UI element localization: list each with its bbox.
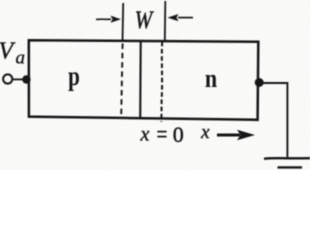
wire from right contact to ground — [260, 83, 288, 157]
depletion edge line (right, xn) — [160, 42, 163, 122]
x axis arrow — [217, 134, 240, 137]
svg-text:W: W — [135, 6, 155, 35]
svg-text:n: n — [205, 64, 218, 93]
W dimension right tick — [164, 1, 167, 42]
svg-text:p: p — [68, 61, 80, 91]
ground bar bottom — [278, 166, 303, 168]
contact dot left — [22, 75, 30, 83]
contact dot right — [255, 78, 264, 87]
svg-text:=: = — [157, 120, 168, 148]
ground bar top — [264, 157, 310, 160]
scan paper texture — [0, 0, 310, 170]
svg-text:a: a — [16, 47, 26, 68]
dimension arrow pointing right — [96, 18, 111, 20]
depletion edge dashed line (left, -xp) — [121, 44, 122, 116]
svg-text:x: x — [140, 124, 150, 146]
wire from terminal to body — [13, 78, 24, 80]
dimension arrow pointing left — [178, 17, 193, 19]
semiconductor body rectangle — [29, 40, 258, 120]
input terminal circle — [3, 74, 12, 83]
svg-text:x: x — [200, 122, 210, 143]
metallurgical junction line — [139, 42, 142, 120]
W dimension left tick — [122, 3, 125, 42]
svg-text:0: 0 — [173, 122, 184, 147]
